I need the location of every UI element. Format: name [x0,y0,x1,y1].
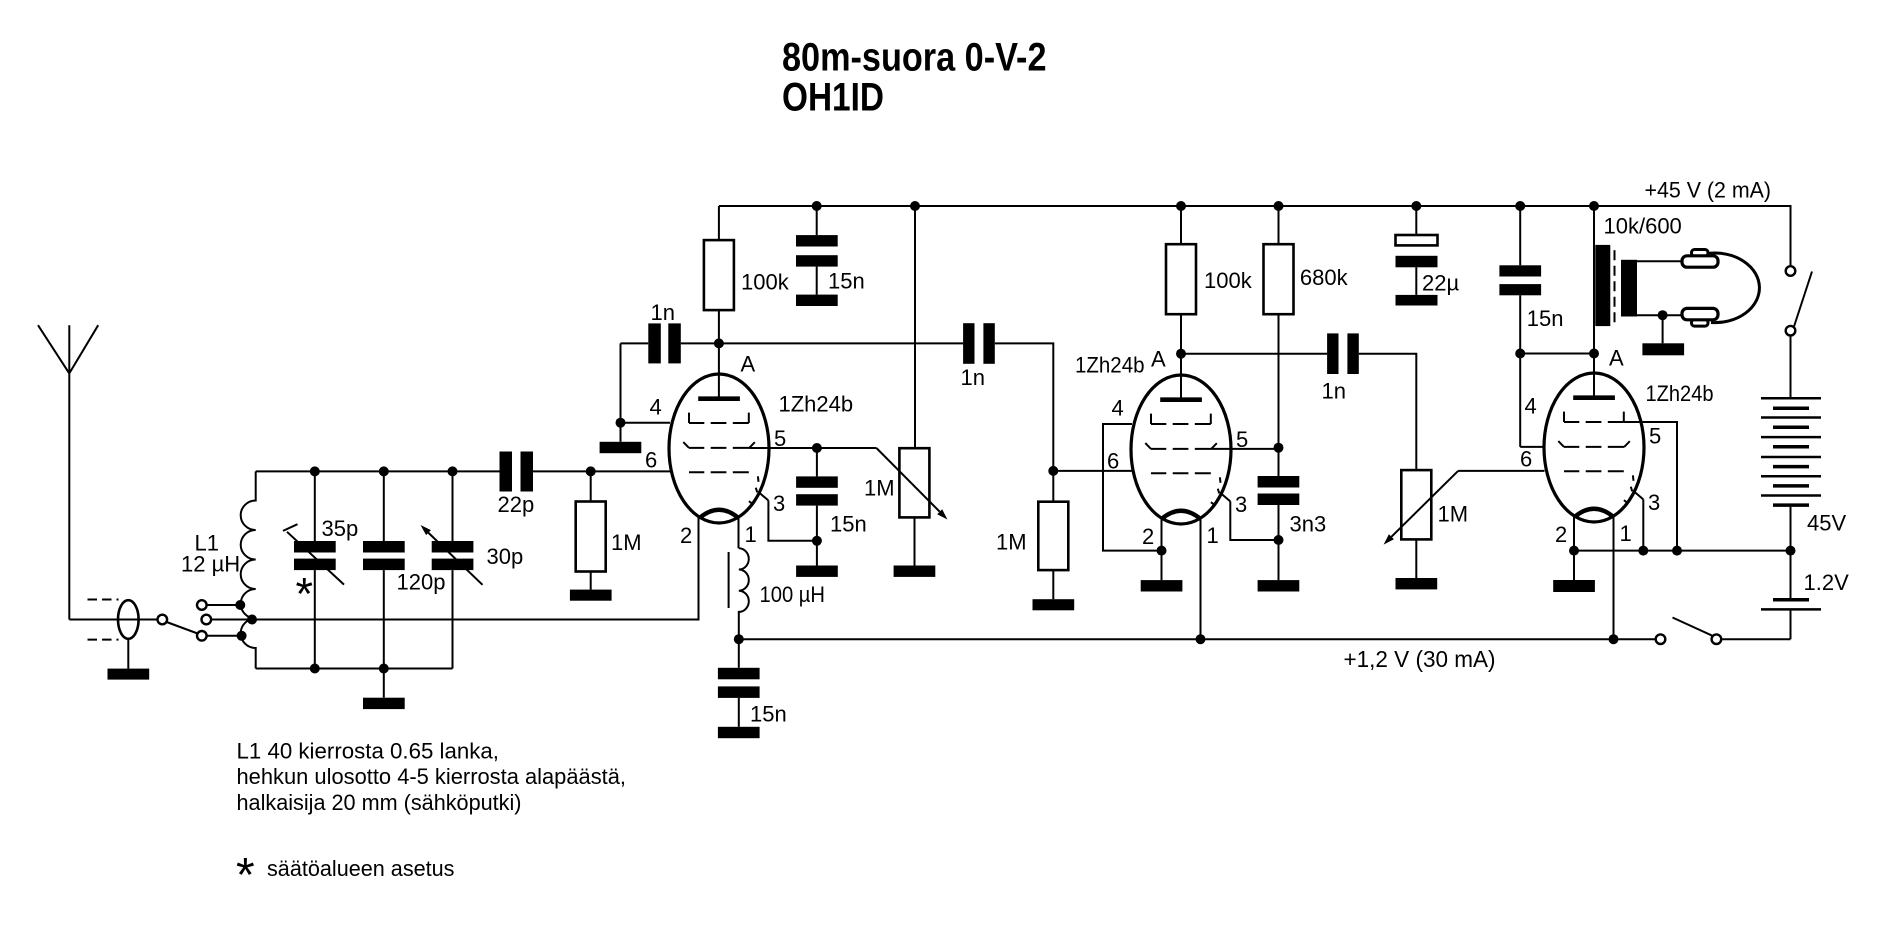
ground bar [894,566,936,577]
antenna [38,325,98,619]
svg-text:halkaisija 20 mm (sähköputki): halkaisija 20 mm (sähköputki) [237,790,522,815]
ground bar [600,442,642,453]
headphones earpiece top [1692,250,1709,257]
filament rail [739,638,1791,640]
tube U3 1Zh24b [1544,373,1644,522]
node anode1 [714,338,724,348]
resistor 680k [1278,206,1280,244]
svg-text:3: 3 [1235,492,1247,517]
mid rail 45V minus [1574,550,1791,552]
svg-text:1M: 1M [611,530,642,555]
svg-text:1n: 1n [1322,379,1346,404]
svg-text:1M: 1M [996,530,1027,555]
svg-text:35p: 35p [322,516,359,541]
ground bar [796,566,838,577]
wire grid4 ground [620,423,622,442]
grommet feedthrough [118,600,139,639]
wire pin5 tube2 [1211,448,1278,450]
wire pot1 feed [914,206,916,448]
wire pin1 tube1 [738,517,740,548]
capacitor 15n filament [738,639,740,668]
svg-text:1Zh24b: 1Zh24b [1075,353,1145,378]
node 30p top [448,466,458,476]
svg-text:1: 1 [745,522,757,547]
svg-text:*: * [296,569,314,620]
ground bar [1553,580,1595,592]
svg-text:1: 1 [1620,521,1632,546]
svg-text:120p: 120p [397,570,446,595]
svg-text:6: 6 [1107,449,1119,474]
svg-text:1Zh24b: 1Zh24b [1646,381,1714,406]
svg-text:A: A [1151,347,1166,372]
svg-text:80m-suora 0-V-2: 80m-suora 0-V-2 [782,36,1047,80]
node 15n4 anode3 [1515,349,1525,359]
node grid1 rail [1672,546,1682,556]
svg-text:22p: 22p [498,492,535,517]
node 15n1 [812,201,822,211]
svg-text:säätöalueen asetus: säätöalueen asetus [267,856,455,881]
svg-text:1n: 1n [961,365,985,390]
node grid tube2 [1048,466,1058,476]
wire wiper to pin6 tube3 [1458,470,1544,472]
svg-text:15n: 15n [1527,306,1564,331]
wire 1n to grid4 [620,343,622,422]
svg-text:15n: 15n [830,512,867,537]
switch B+ [1786,266,1796,276]
capacitor 22p [500,452,513,492]
svg-text:3: 3 [1648,490,1660,515]
svg-text:15n: 15n [750,702,787,727]
tube U1 1Zh24b [669,374,769,523]
wire phones ground [1662,315,1664,343]
svg-text:100k: 100k [1204,268,1253,293]
ground bar [1141,580,1183,591]
switch lever [167,622,198,634]
svg-text:A: A [741,352,756,377]
node top tap [235,600,245,610]
svg-text:1M: 1M [864,476,895,501]
svg-text:2: 2 [1142,524,1154,549]
potentiometer 1M volume [1401,470,1431,539]
capacitor 1n feedback 1 [621,342,649,344]
wire pin3 tube2 [1230,501,1278,540]
svg-text:+45 V (2 mA): +45 V (2 mA) [1645,178,1772,203]
wire secondary bottom [1637,314,1682,316]
wire 1.2V to switch [1790,609,1792,639]
capacitor 30p variable [452,471,454,668]
wire pin1 tube3 [1613,516,1615,639]
capacitor 120p [383,471,385,668]
node anode3 [1589,349,1599,359]
pot2 wiper arrow [1391,471,1458,537]
capacitor 35p trimmer [314,471,316,668]
ground bar [108,669,150,680]
tank ground wire [383,669,385,698]
node 100k2 [1176,201,1186,211]
node pin3 rail [1638,546,1648,556]
capacitor 15n output [1519,206,1521,265]
svg-text:1: 1 [1207,523,1219,548]
potentiometer 1M regen 1 [899,448,929,517]
resistor 100k stage2 [1180,206,1182,244]
ground bar [1396,578,1438,589]
ground bar [1642,343,1684,355]
ground bar [1033,599,1075,610]
svg-text:6: 6 [1520,447,1532,472]
svg-text:45V: 45V [1807,511,1846,536]
svg-text:3: 3 [773,491,785,516]
node pin5 [812,443,822,453]
wire pin4 tube2 to pin2 [1103,424,1162,551]
wire switch to battery [1790,336,1792,399]
node pin3 tube2 [1274,535,1284,545]
wire to top tap [207,604,240,606]
node bottom tap [237,631,247,641]
node pin3 join [812,536,822,546]
wire pin2 tube2 [1161,518,1163,580]
ground bar [1396,295,1438,306]
svg-text:5: 5 [1649,424,1661,449]
ground bar [718,727,760,738]
wire pin3 tube3 [1642,499,1644,550]
svg-text:22µ: 22µ [1422,271,1459,296]
battery 1.2V [1773,598,1809,602]
resistor 100k stage1 [718,206,720,240]
capacitor 15n screen 1 [816,448,818,476]
resistor 1M grid 2 [1052,471,1054,502]
svg-text:1M: 1M [1438,502,1469,527]
ground bar [796,295,838,306]
switch S1 common [158,615,168,625]
node 22u [1411,201,1421,211]
svg-text:15n: 15n [828,269,865,294]
node anode2 [1176,349,1186,359]
switch contact mid [202,615,212,625]
wire pin2 tube3 [1573,516,1575,580]
svg-text:OH1ID: OH1ID [782,76,884,120]
wire to pin4 [621,422,671,424]
node pin1 filament rail [1196,634,1206,644]
tank top rail [256,470,500,472]
wire to grid2 tube3 [1520,446,1544,448]
svg-text:1n: 1n [651,300,675,325]
wire pin5 tube1 [749,447,876,449]
wire to pin6 tube2 [1053,470,1132,472]
svg-text:100 µH: 100 µH [760,582,826,607]
pot1 wiper arrow [876,448,939,512]
wire anode2 to 1n3 [1181,353,1327,355]
wire battery joint [1790,505,1792,600]
node battery joint [1786,546,1796,556]
node mid tap [247,615,257,625]
node grid4 tube1 [616,418,626,428]
wire antenna to switch [69,619,157,621]
svg-text:hehkun ulosotto 4-5 kierrosta: hehkun ulosotto 4-5 kierrosta alapäästä, [237,764,627,789]
capacitor 1n coupling 3 [1327,333,1338,374]
node pot1 feed [910,201,920,211]
node 15n4 [1515,201,1525,211]
tank bottom rail [256,668,453,670]
ground bar [570,590,612,601]
switch contact top [197,600,207,610]
node pin2 rail [1569,546,1579,556]
node transformer [1589,201,1599,211]
headphones earpiece bottom [1692,320,1709,327]
svg-text:4: 4 [1112,396,1124,421]
inductor 100uH choke [739,548,749,639]
transformer 10k/600 [1593,206,1595,354]
capacitor 15n rail bypass 1 [816,206,818,235]
wire to bottom tap [207,635,241,637]
node pin2 tube2 [1157,546,1167,556]
tube U2 1Zh24b [1131,375,1231,524]
svg-text:1.2V: 1.2V [1804,570,1850,595]
ground bar [363,698,405,709]
node 35p top [310,466,320,476]
ground wire under grommet [127,639,129,669]
node phones ground [1658,310,1668,320]
capacitor 3n3 [1278,448,1280,476]
switch contact bottom [197,631,207,641]
wire anode3 lead [1593,354,1595,398]
inductor L1 [241,471,256,668]
node filament feed [734,634,744,644]
headphones headband [1709,253,1760,323]
wire secondary top [1637,260,1682,262]
capacitor 1n coupling 2 [963,323,974,364]
svg-text:100k: 100k [741,270,790,295]
node bottom 120p [379,664,389,674]
svg-text:3n3: 3n3 [1290,512,1327,537]
svg-text:+1,2 V (30 mA): +1,2 V (30 mA) [1344,646,1496,672]
ground bar [1258,580,1300,591]
svg-text:4: 4 [650,395,662,420]
svg-text:1Zh24b: 1Zh24b [779,392,854,417]
node pin1 tube3 [1609,634,1619,644]
switch filament [1656,634,1666,644]
svg-text:2: 2 [1555,522,1567,547]
svg-text:10k/600: 10k/600 [1604,214,1682,239]
wire grid1 tube3 to mid rail [1624,422,1677,551]
wire anode1 to 1n2 [719,342,963,344]
svg-text:4: 4 [1525,394,1537,419]
wire 15n4 to anode3 [1520,353,1594,355]
chassis dashed lines [88,600,119,640]
node 120p top [379,466,389,476]
wire pin3 tube1 [768,500,817,540]
svg-text:12 µH: 12 µH [181,552,240,577]
svg-text:6: 6 [645,448,657,473]
node grid tank [586,466,596,476]
svg-text:680k: 680k [1300,265,1349,290]
resistor 1M grid [590,471,592,501]
svg-text:2: 2 [680,523,692,548]
B+ rail [719,206,1791,266]
wire to pin 6 tube1 [591,470,670,472]
wire pin1 tube2 [1200,518,1202,639]
wire to mid tap [211,619,252,621]
node 680k [1274,201,1284,211]
capacitor 22u electrolytic [1415,206,1417,235]
svg-text:A: A [1609,346,1624,371]
node pin5 tube2 [1274,443,1284,453]
node bottom 35p [310,664,320,674]
svg-text:30p: 30p [487,544,524,569]
svg-text:L1 40 kierrosta 0.65 lanka,: L1 40 kierrosta 0.65 lanka, [237,739,500,764]
svg-text:*: * [236,849,255,902]
wire cathode tap to pin2 tube1 [252,517,699,620]
battery 45V [1761,398,1821,495]
